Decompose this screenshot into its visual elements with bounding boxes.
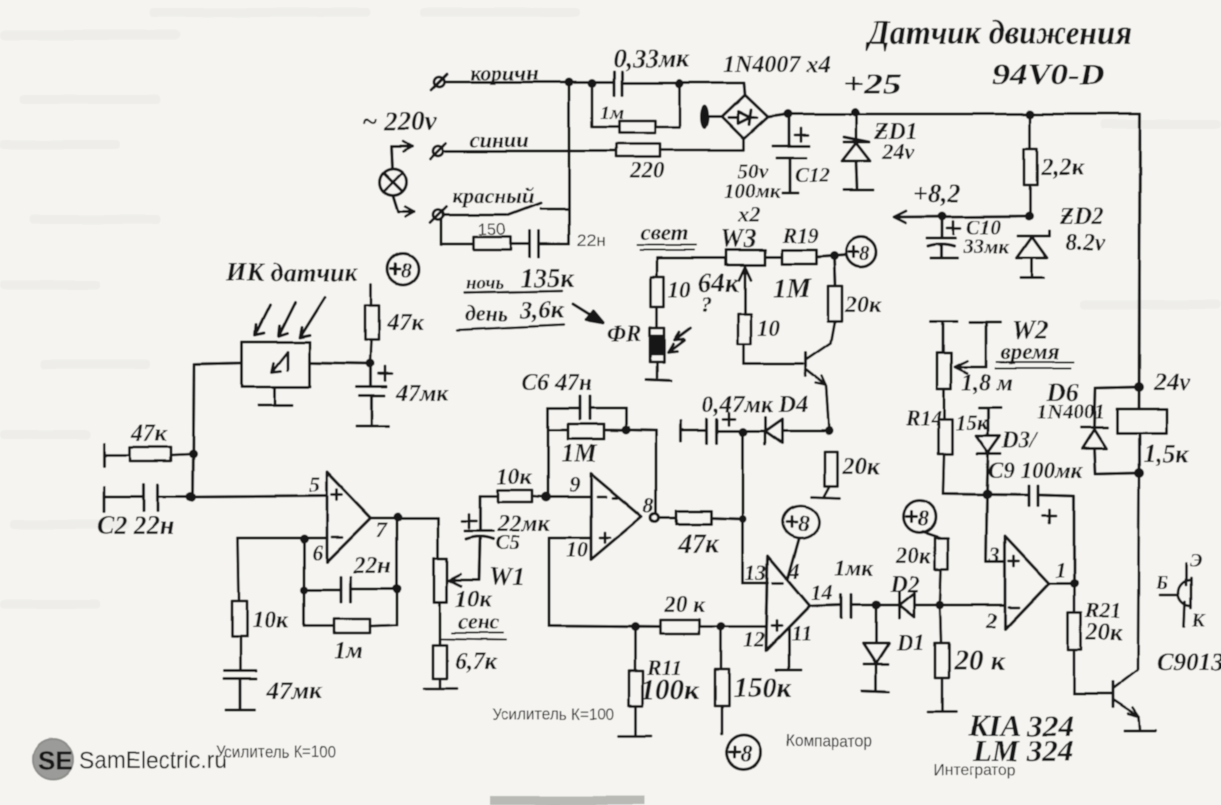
label 47мк — [395, 381, 449, 407]
resistor 47k out — [676, 511, 743, 524]
label ~220v — [362, 106, 438, 136]
label 64к — [698, 268, 740, 298]
label 150 — [478, 220, 506, 239]
wire pin13 — [743, 582, 768, 585]
rail lower segment — [1137, 432, 1140, 473]
terminal cap 0.47 left — [679, 421, 682, 441]
label 1N4007 x4 — [723, 52, 830, 78]
wire +8 node down to 20k — [834, 256, 835, 286]
potentiometer W2 — [937, 353, 986, 419]
resistor 150 — [474, 237, 511, 250]
svg-text:150: 150 — [478, 220, 506, 239]
terminal W2 top — [931, 321, 957, 353]
svg-text:R19: R19 — [781, 223, 819, 248]
label Компаратор — [786, 731, 872, 750]
wire pin4 to +8 — [788, 539, 799, 578]
label ZD2 — [1059, 204, 1104, 230]
label синий — [470, 127, 529, 152]
wire node down to 47k row — [742, 432, 745, 583]
svg-text:R14: R14 — [904, 405, 942, 430]
svg-text:150к: 150к — [733, 672, 793, 704]
svg-text:220: 220 — [629, 158, 665, 183]
svg-text:С6 47н: С6 47н — [521, 370, 592, 396]
label 20к int top — [895, 543, 932, 568]
svg-text:2: 2 — [985, 608, 997, 633]
node ZD1 top — [851, 108, 860, 117]
svg-text:1м: 1м — [600, 102, 624, 124]
svg-text:8: 8 — [741, 741, 753, 766]
wire pin9 — [546, 496, 591, 499]
wire red with switch — [444, 203, 569, 215]
svg-text:время: время — [1001, 339, 1060, 364]
label 20к below D4 — [842, 454, 880, 480]
svg-text:2,2к: 2,2к — [1040, 155, 1084, 181]
svg-text:24v: 24v — [881, 139, 914, 164]
svg-text:С5: С5 — [495, 530, 520, 554]
label R21 — [1084, 598, 1122, 623]
label 10 wiper — [757, 316, 781, 341]
svg-text:ФR: ФR — [607, 321, 642, 346]
label x2 — [737, 202, 760, 227]
transistor Q1 — [806, 321, 835, 431]
label 6,7к — [455, 649, 498, 675]
label R11 — [646, 655, 682, 680]
annotation arrow to FR — [573, 304, 603, 323]
label 22н — [577, 231, 605, 250]
svg-text:11: 11 — [791, 621, 812, 646]
terminal blue — [430, 143, 446, 159]
svg-text:20к: 20к — [844, 292, 882, 318]
annotation ночь 135к — [464, 263, 576, 294]
svg-text:+25: +25 — [842, 68, 902, 100]
power +8 circle 150k — [727, 735, 761, 769]
svg-text:10: 10 — [668, 277, 692, 302]
label 8.2v — [1065, 230, 1106, 256]
label свет — [637, 220, 696, 250]
capacitor C6 — [548, 396, 626, 419]
svg-text:день: день — [465, 301, 508, 326]
label +25 — [842, 68, 902, 100]
node after 1mk — [872, 601, 881, 610]
wire +8.2 with arrow — [894, 211, 1030, 223]
label сенс — [440, 609, 506, 640]
svg-text:24v: 24v — [1153, 369, 1191, 396]
lamp — [380, 141, 415, 217]
label 1,8 м — [961, 370, 1013, 396]
power +8 ellipse comp — [783, 506, 819, 538]
node 22n right — [393, 585, 402, 594]
title Датчик движения — [865, 15, 1132, 52]
resistor 220 — [616, 138, 744, 157]
wire C9 row — [943, 494, 1029, 495]
svg-text:Компаратор: Компаратор — [786, 731, 872, 750]
resistor 20k comp — [660, 620, 766, 634]
label 22н feedback — [353, 553, 391, 579]
wire blue — [444, 150, 616, 153]
svg-text:94V0-D: 94V0-D — [992, 58, 1105, 91]
label C9 100мк — [988, 458, 1084, 483]
capacitor C2 — [104, 485, 191, 511]
watermark SE logo — [32, 738, 74, 780]
resistor R19 — [765, 250, 846, 264]
capacitor C12 — [773, 114, 809, 193]
capacitor 47mk IR — [357, 364, 389, 426]
svg-text:20к: 20к — [895, 543, 932, 568]
label R19 — [781, 223, 819, 248]
node relay top — [1134, 382, 1144, 392]
wire pin14 out — [810, 605, 841, 606]
wire IR left down — [193, 363, 242, 498]
label 100к — [641, 674, 701, 706]
transistor Q2 — [1074, 473, 1156, 731]
svg-text:0,33мк: 0,33мк — [613, 44, 690, 73]
label ZD1 — [873, 119, 918, 145]
label 20к comp — [663, 592, 706, 617]
svg-text:1: 1 — [1055, 557, 1066, 582]
node feedback tap — [300, 535, 309, 544]
zener ZD1 — [842, 114, 873, 190]
svg-text:47к: 47к — [677, 528, 720, 558]
node cap input — [588, 79, 597, 88]
svg-text:22н: 22н — [577, 231, 605, 250]
label W1 — [489, 562, 525, 591]
label 10к left — [252, 608, 289, 634]
svg-text:Э: Э — [1190, 551, 1202, 572]
wire pin3 — [986, 495, 1005, 561]
label 47к input — [130, 421, 168, 447]
svg-text:1,8 м: 1,8 м — [961, 370, 1013, 396]
svg-text:D3/: D3/ — [1001, 428, 1039, 453]
svg-text:8: 8 — [918, 506, 929, 531]
resistor 6.7k — [424, 645, 457, 688]
watermark SamElectric.ru — [79, 747, 227, 774]
node 150k top — [717, 623, 726, 632]
label 220 — [629, 158, 665, 183]
svg-text:D1: D1 — [896, 630, 925, 655]
svg-text:С9013: С9013 — [1157, 649, 1221, 676]
svg-text:10: 10 — [566, 537, 588, 562]
node IR out — [366, 360, 375, 369]
wire U1A out down to W1 — [437, 518, 440, 558]
label Усилитель К=100 left — [216, 742, 336, 761]
capacitor 0.47мк — [681, 419, 742, 443]
wire feedback left vertical — [303, 539, 306, 626]
label Интегратор — [933, 762, 1016, 779]
label 20к int bottom — [953, 645, 1006, 677]
resistor 10 upper — [651, 277, 664, 328]
svg-text:Интегратор: Интегратор — [933, 762, 1016, 779]
label 47к bold — [677, 528, 720, 558]
ground FR — [646, 379, 671, 380]
ground IR box — [259, 387, 292, 405]
svg-text:С12: С12 — [795, 163, 831, 187]
capacitor 22n feedback — [304, 577, 397, 602]
node 47k/C2 — [189, 450, 198, 459]
node 2.2k top — [1026, 110, 1035, 119]
svg-text:Датчик движения: Датчик движения — [865, 15, 1132, 52]
terminal W2 wiper top — [970, 322, 1000, 367]
svg-text:8: 8 — [798, 511, 810, 536]
photoresistor FR — [650, 328, 664, 377]
svg-text:Усилитель К=100: Усилитель К=100 — [492, 705, 614, 724]
label 10к pin9 — [497, 464, 533, 489]
svg-text:20 к: 20 к — [953, 645, 1006, 677]
svg-text:135к: 135к — [520, 263, 576, 293]
svg-text:47к: 47к — [130, 421, 168, 447]
label C2 22н — [97, 511, 174, 540]
label 33мк — [962, 234, 1010, 258]
diode D3 — [976, 436, 1000, 494]
svg-text:0,47мк D4: 0,47мк D4 — [702, 392, 808, 418]
svg-text:47мк: 47мк — [395, 381, 449, 407]
node output U1A — [394, 513, 403, 522]
svg-text:8: 8 — [401, 258, 412, 282]
svg-text:Усилитель К=100: Усилитель К=100 — [216, 742, 336, 761]
relay coil 1.5k — [1117, 409, 1166, 433]
svg-text:1м: 1м — [334, 638, 362, 664]
svg-text:47к: 47к — [386, 310, 424, 336]
resistor 150k — [715, 627, 729, 734]
capacitor 47mk bottom left — [224, 671, 256, 710]
label 50v — [738, 159, 769, 183]
op-amp U1B — [566, 472, 659, 562]
IR sensor arrows — [255, 297, 325, 337]
label LM324 — [972, 733, 1074, 768]
svg-text:20 к: 20 к — [663, 592, 706, 617]
svg-text:С2 22н: С2 22н — [97, 511, 174, 540]
subtitle 94V0-D — [992, 58, 1105, 91]
FR arrows — [668, 328, 690, 352]
node ZD2 top — [1025, 212, 1034, 221]
label Усилитель К=100 mid — [492, 705, 614, 724]
capacitor C10 — [927, 216, 957, 258]
AC input blob — [701, 105, 710, 129]
terminal 47k input — [102, 444, 105, 466]
label 47мк bottom — [266, 678, 323, 705]
svg-text:?: ? — [701, 292, 712, 317]
capacitor 1mk — [841, 595, 876, 618]
diode D6 — [1081, 387, 1139, 474]
op-amp U1D integrator — [985, 536, 1066, 633]
plus 0.47 — [723, 413, 735, 425]
svg-text:красный: красный — [452, 183, 535, 208]
node C2 out — [186, 492, 196, 502]
label 100мк — [724, 179, 782, 203]
svg-text:синии: синии — [470, 127, 529, 152]
resistor 1m feedback — [304, 619, 397, 633]
wire pin1 out — [1049, 582, 1074, 585]
node 22n left — [300, 586, 308, 594]
label C12 — [795, 163, 831, 187]
wire pin6 left — [238, 537, 327, 540]
svg-text:13: 13 — [745, 560, 767, 585]
capacitor C9 — [1029, 486, 1074, 583]
svg-text:SamElectric.ru: SamElectric.ru — [79, 747, 227, 774]
node 47k right — [739, 515, 747, 523]
label 0,33мк — [613, 44, 690, 73]
label 1N4001 — [1037, 400, 1105, 424]
plus sign C12 — [795, 128, 808, 141]
svg-text:Б: Б — [1155, 573, 1168, 594]
wire +25 rail — [768, 114, 1140, 117]
power +8 circle int — [904, 501, 936, 533]
diode D1 — [862, 605, 889, 692]
op-amp U1A — [309, 472, 388, 565]
svg-text:3: 3 — [988, 542, 1000, 567]
svg-text:8.2v: 8.2v — [1065, 230, 1106, 256]
label Д6 — [1046, 378, 1079, 407]
plus C9 — [1043, 510, 1056, 523]
label 24v — [881, 139, 914, 164]
svg-text:С9 100мк: С9 100мк — [988, 458, 1084, 483]
terminal D3 top — [979, 408, 1001, 436]
svg-text:W1: W1 — [489, 562, 525, 591]
node right of cap — [676, 80, 685, 89]
node relay bottom — [1134, 468, 1144, 478]
svg-text:ƵD2: ƵD2 — [1059, 204, 1104, 230]
plus C5 — [462, 514, 476, 528]
label +8,2 — [913, 179, 960, 208]
label 1м feedback — [334, 638, 362, 664]
power +8 circle left — [388, 254, 419, 285]
diode D4 — [743, 417, 829, 444]
IR sensor box — [242, 342, 310, 387]
capacitor 22n loop — [530, 231, 539, 257]
wire pin10 — [549, 538, 591, 626]
svg-text:К: К — [1191, 610, 1206, 631]
label ИК датчик — [225, 258, 359, 287]
wire pin11 ground — [776, 629, 801, 670]
node D4 right — [825, 427, 834, 436]
svg-text:3,6к: 3,6к — [519, 297, 565, 324]
svg-text:33мк: 33мк — [962, 234, 1010, 258]
svg-text:10к: 10к — [497, 464, 533, 489]
resistor 10 wiper — [738, 314, 751, 364]
svg-text:10: 10 — [757, 316, 781, 341]
wire to pin5 — [191, 496, 327, 497]
node pin1 — [1070, 579, 1079, 588]
label 20к collector — [844, 292, 882, 318]
node C10 — [938, 212, 947, 221]
wire C6 left vertical — [547, 408, 550, 497]
svg-text:100мк: 100мк — [724, 179, 782, 203]
resistor 1M op2 feedback — [548, 408, 656, 513]
capacitor 0.33mk — [614, 72, 680, 95]
resistor 10k left — [232, 538, 247, 671]
resistor 20k below D4 — [812, 452, 840, 498]
wire IR right to node — [310, 363, 370, 364]
svg-text:7: 7 — [376, 517, 388, 542]
power +8 circle W3 — [846, 237, 876, 267]
svg-text:6: 6 — [312, 540, 323, 565]
svg-text:5: 5 — [309, 472, 320, 497]
svg-text:22н: 22н — [353, 553, 391, 579]
resistor 47k top — [365, 285, 379, 364]
svg-text:20к: 20к — [1085, 620, 1123, 646]
label коричн — [470, 60, 538, 85]
label W3 — [720, 224, 756, 253]
plus 47mk — [379, 367, 392, 381]
resistor R21 — [1068, 583, 1081, 694]
label W2 — [1012, 316, 1048, 345]
svg-text:~ 220v: ~ 220v — [362, 106, 438, 136]
svg-text:1мк: 1мк — [834, 556, 874, 581]
label Д3 — [1001, 428, 1039, 453]
label Д2 — [889, 572, 919, 598]
right rail vertical — [1139, 114, 1140, 410]
label C9013 — [1157, 649, 1221, 676]
potentiometer W1 — [434, 558, 479, 645]
bridge rectifier 1N4007 x4 — [709, 95, 768, 139]
resistor 1m parallel — [592, 88, 680, 133]
resistor 47k input — [104, 447, 193, 461]
svg-text:100к: 100к — [641, 674, 701, 706]
label 1,5к — [1143, 439, 1190, 468]
svg-text:12: 12 — [743, 627, 765, 652]
label C10 — [966, 215, 1002, 239]
svg-text:свет: свет — [640, 220, 688, 245]
wire main vertical — [568, 82, 571, 244]
resistor 20k int top — [923, 532, 948, 605]
label 1М R19 — [773, 273, 812, 303]
label 10к sens — [455, 587, 492, 613]
svg-text:9: 9 — [569, 472, 580, 497]
node R19 right — [830, 252, 839, 261]
label ФР — [607, 321, 642, 346]
resistor 20k int bottom — [928, 605, 956, 712]
label 47к — [386, 310, 424, 336]
plus C10 — [947, 221, 960, 234]
node at brown line — [565, 78, 574, 87]
label 2,2к — [1040, 155, 1084, 181]
resistor 2.2k — [1024, 114, 1037, 216]
wire red loop bottom — [441, 220, 569, 244]
wire 20k row comparator — [549, 626, 660, 627]
node 20k row left — [631, 623, 640, 632]
svg-text:ИК датчик: ИК датчик — [225, 258, 359, 287]
node pin9 — [541, 492, 551, 502]
svg-text:1М: 1М — [773, 273, 812, 303]
label Д1 — [896, 630, 925, 655]
label 1м — [600, 102, 624, 124]
wire to bridge top — [680, 83, 745, 95]
svg-text:сенс: сенс — [458, 609, 499, 634]
wire 8 output — [659, 517, 676, 520]
label 1мк — [834, 556, 874, 581]
label время — [996, 339, 1074, 368]
wire wiper to base — [744, 363, 803, 366]
svg-text:10к: 10к — [252, 608, 289, 634]
svg-text:1N4007 х4: 1N4007 х4 — [723, 52, 830, 78]
terminal brown — [431, 74, 447, 90]
comparator U1C — [743, 556, 833, 652]
svg-text:8: 8 — [859, 241, 870, 265]
label 1М op2 — [561, 439, 598, 468]
node bridge out — [784, 110, 793, 119]
svg-text:+8,2: +8,2 — [913, 179, 960, 208]
label KIA 324 — [967, 708, 1074, 743]
resistor 20k collector — [828, 286, 842, 321]
svg-text:1,5к: 1,5к — [1143, 439, 1190, 468]
label 10 upper — [668, 277, 692, 302]
resistor R11 100k — [619, 627, 651, 736]
svg-text:47мк: 47мк — [266, 678, 323, 705]
label 24v — [1153, 369, 1191, 396]
label красный — [452, 183, 535, 208]
label question — [701, 292, 712, 317]
zener ZD2 — [1017, 231, 1049, 278]
svg-text:1М: 1М — [561, 439, 598, 468]
